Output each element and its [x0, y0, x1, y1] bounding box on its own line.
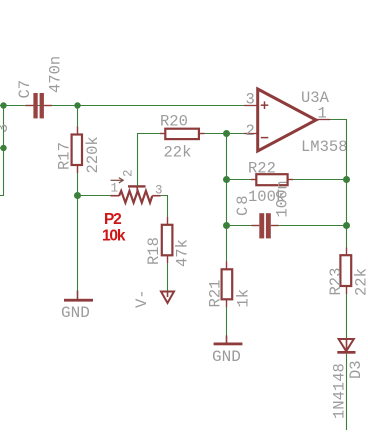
wire R22 left — [227, 179, 252, 181]
ground GND right — [214, 336, 243, 346]
wire junction to GND left — [77, 196, 79, 291]
wire R21 to GND right — [226, 307, 228, 336]
wire junction to pot — [78, 195, 111, 197]
svg-text:1: 1 — [318, 105, 327, 123]
svg-text:D3: D3 — [347, 360, 365, 379]
wire below D3 — [346, 354, 348, 430]
svg-text:R18: R18 — [145, 237, 163, 265]
node junction (226.8,179.5) — [223, 176, 230, 183]
supply V- arrow — [161, 292, 174, 304]
svg-text:47k: 47k — [174, 239, 192, 267]
node junction (226.8,225.5) — [223, 222, 230, 229]
wire R20 to opamp pin2 — [205, 133, 258, 135]
node junction (77,105.5) — [74, 102, 80, 108]
svg-text:GND: GND — [212, 348, 241, 366]
wire left edge vertical — [0, 106, 4, 196]
node junction (346,179.5) — [343, 176, 350, 183]
wire R23 to D3 — [346, 294, 348, 339]
svg-text:R22: R22 — [248, 160, 276, 178]
svg-text:1k: 1k — [235, 289, 253, 308]
svg-text:U3A: U3A — [301, 89, 330, 107]
wire C8 right — [279, 225, 346, 227]
svg-text:R20: R20 — [160, 113, 188, 131]
svg-text:1: 1 — [111, 182, 119, 196]
svg-text:GND: GND — [61, 304, 90, 322]
svg-text:C8: C8 — [234, 193, 252, 216]
svg-text:22k: 22k — [353, 268, 368, 296]
svg-text:100n: 100n — [274, 180, 292, 217]
svg-text:2: 2 — [122, 169, 136, 177]
wire R22 right — [293, 179, 346, 181]
node junction (3,148) — [0, 145, 6, 151]
svg-text:2: 2 — [246, 122, 255, 140]
svg-text:P2: P2 — [104, 211, 121, 228]
svg-text:22k: 22k — [164, 144, 192, 162]
resistor R17 — [72, 106, 82, 196]
ground GND left — [64, 291, 93, 302]
wire C8 left — [227, 225, 252, 227]
svg-text:3: 3 — [0, 124, 12, 133]
diode D3 — [337, 339, 355, 354]
svg-text:470n: 470n — [47, 56, 65, 93]
op-amp U3A — [244, 89, 330, 151]
wire mid vertical — [226, 134, 228, 262]
resistor R23 — [340, 248, 351, 295]
resistor R20 — [160, 129, 205, 139]
pot pin arrow — [111, 178, 124, 183]
svg-text:LM358: LM358 — [301, 138, 348, 156]
capacitor C8 — [252, 213, 279, 238]
svg-text:220k: 220k — [84, 136, 102, 173]
node junction (3,105.5) — [0, 102, 6, 108]
resistor R21 — [222, 262, 233, 308]
svg-text:V-: V- — [133, 289, 151, 308]
svg-text:C7: C7 — [16, 80, 34, 99]
wire stub left y148 — [0, 147, 4, 149]
resistor R18 — [162, 217, 173, 263]
node junction (77,195.5) — [74, 192, 81, 199]
wire wiper to R20 — [138, 134, 161, 186]
svg-text:R21: R21 — [207, 280, 225, 308]
svg-text:1N4148: 1N4148 — [331, 363, 349, 419]
node junction (346,225.5) — [343, 222, 350, 229]
resistor R22 — [251, 174, 293, 185]
capacitor C7 — [26, 93, 53, 118]
svg-text:R17: R17 — [56, 142, 74, 170]
svg-text:3: 3 — [246, 91, 255, 109]
potentiometer P2 — [111, 185, 161, 203]
svg-text:R23: R23 — [327, 268, 345, 296]
svg-text:10k: 10k — [102, 228, 126, 245]
wire R18 to V- — [167, 263, 169, 291]
wire opamp output — [330, 120, 347, 248]
wire pot3 to R18 — [161, 196, 168, 218]
wire net top horizontal — [0, 105, 257, 107]
node junction (227,133.5) — [223, 130, 230, 137]
